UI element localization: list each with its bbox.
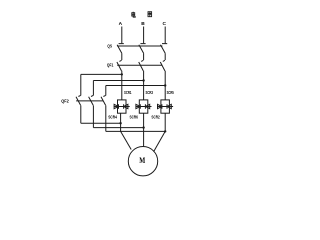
svg-text:B: B: [141, 21, 145, 27]
svg-text:SCR5: SCR5: [167, 90, 175, 95]
svg-text:QF2: QF2: [61, 98, 69, 103]
svg-text:M: M: [139, 156, 145, 165]
svg-text:QF1: QF1: [107, 63, 114, 68]
svg-text:SCR3: SCR3: [146, 90, 154, 95]
svg-text:A: A: [119, 21, 123, 27]
svg-text:SCR1: SCR1: [124, 90, 132, 95]
svg-text:C: C: [162, 21, 166, 27]
svg-text:SCR6: SCR6: [130, 114, 139, 119]
svg-text:SCR2: SCR2: [151, 114, 160, 119]
svg-text:SCR4: SCR4: [108, 114, 117, 119]
svg-text:QS: QS: [107, 44, 112, 49]
